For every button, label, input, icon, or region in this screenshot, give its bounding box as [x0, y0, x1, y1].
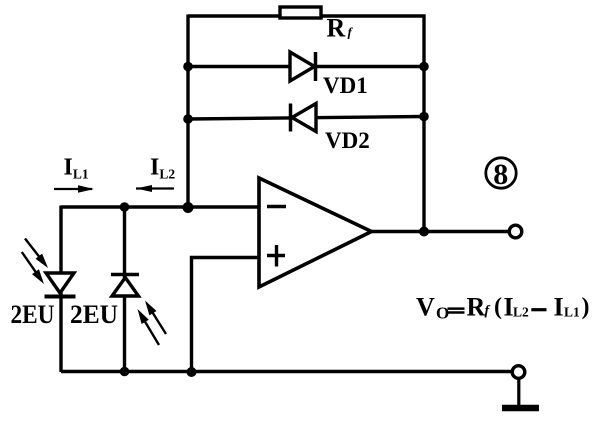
svg-text:R: R: [467, 293, 486, 322]
svg-text:VD2: VD2: [325, 128, 370, 153]
figure number 8: [486, 158, 516, 191]
wire inverting input: [61, 205, 259, 208]
photodiode V1: [22, 239, 76, 297]
op-amp U1: [259, 178, 372, 287]
node V2 bottom: [120, 367, 130, 377]
wire VD2 branch: [188, 117, 424, 120]
svg-text:(: (: [494, 294, 502, 320]
resistor Rf: [280, 7, 321, 18]
wire bottom rail: [61, 370, 512, 374]
equation Vo = Rf ( IL2 - IL1 ): [416, 293, 590, 323]
svg-text:L1: L1: [564, 304, 580, 319]
wire top feedback left segment: [188, 14, 281, 17]
node non-inverting bottom: [187, 367, 197, 377]
diode VD1: [290, 52, 316, 81]
svg-text:8: 8: [493, 158, 508, 191]
node VD2 left: [183, 114, 193, 124]
node VD1 right: [419, 62, 429, 72]
diode VD2: [291, 104, 317, 132]
svg-text:VD1: VD1: [323, 73, 368, 98]
ground: [502, 380, 539, 409]
node output junction: [419, 227, 429, 237]
svg-text:2EU: 2EU: [11, 300, 55, 329]
svg-text:I: I: [554, 293, 564, 322]
svg-text:R: R: [327, 14, 346, 43]
current arrow IL2: [136, 185, 174, 192]
svg-text:2EU: 2EU: [70, 300, 118, 329]
wire photodiode V1 branch: [59, 206, 62, 373]
wire photodiode V2 branch: [123, 206, 126, 373]
wire VD1 branch: [188, 65, 424, 68]
photodiode V2: [111, 275, 166, 346]
node VD2 right: [419, 112, 429, 122]
svg-text:): ): [582, 294, 590, 320]
terminal output: [509, 225, 522, 238]
node inverting input junction: [183, 202, 194, 213]
wire output: [372, 230, 509, 233]
current arrow IL1: [54, 185, 94, 192]
wire right feedback vertical: [422, 15, 425, 232]
wire top feedback right segment: [320, 14, 426, 17]
svg-text:L2: L2: [513, 304, 529, 319]
node VD1 left: [183, 62, 193, 72]
svg-text:O: O: [436, 304, 449, 323]
node photodiode V2 top: [120, 202, 130, 212]
svg-text:V: V: [416, 293, 435, 322]
wire left feedback vertical: [186, 15, 189, 209]
terminal bottom: [512, 366, 525, 379]
wire non-inverting input: [192, 258, 260, 373]
